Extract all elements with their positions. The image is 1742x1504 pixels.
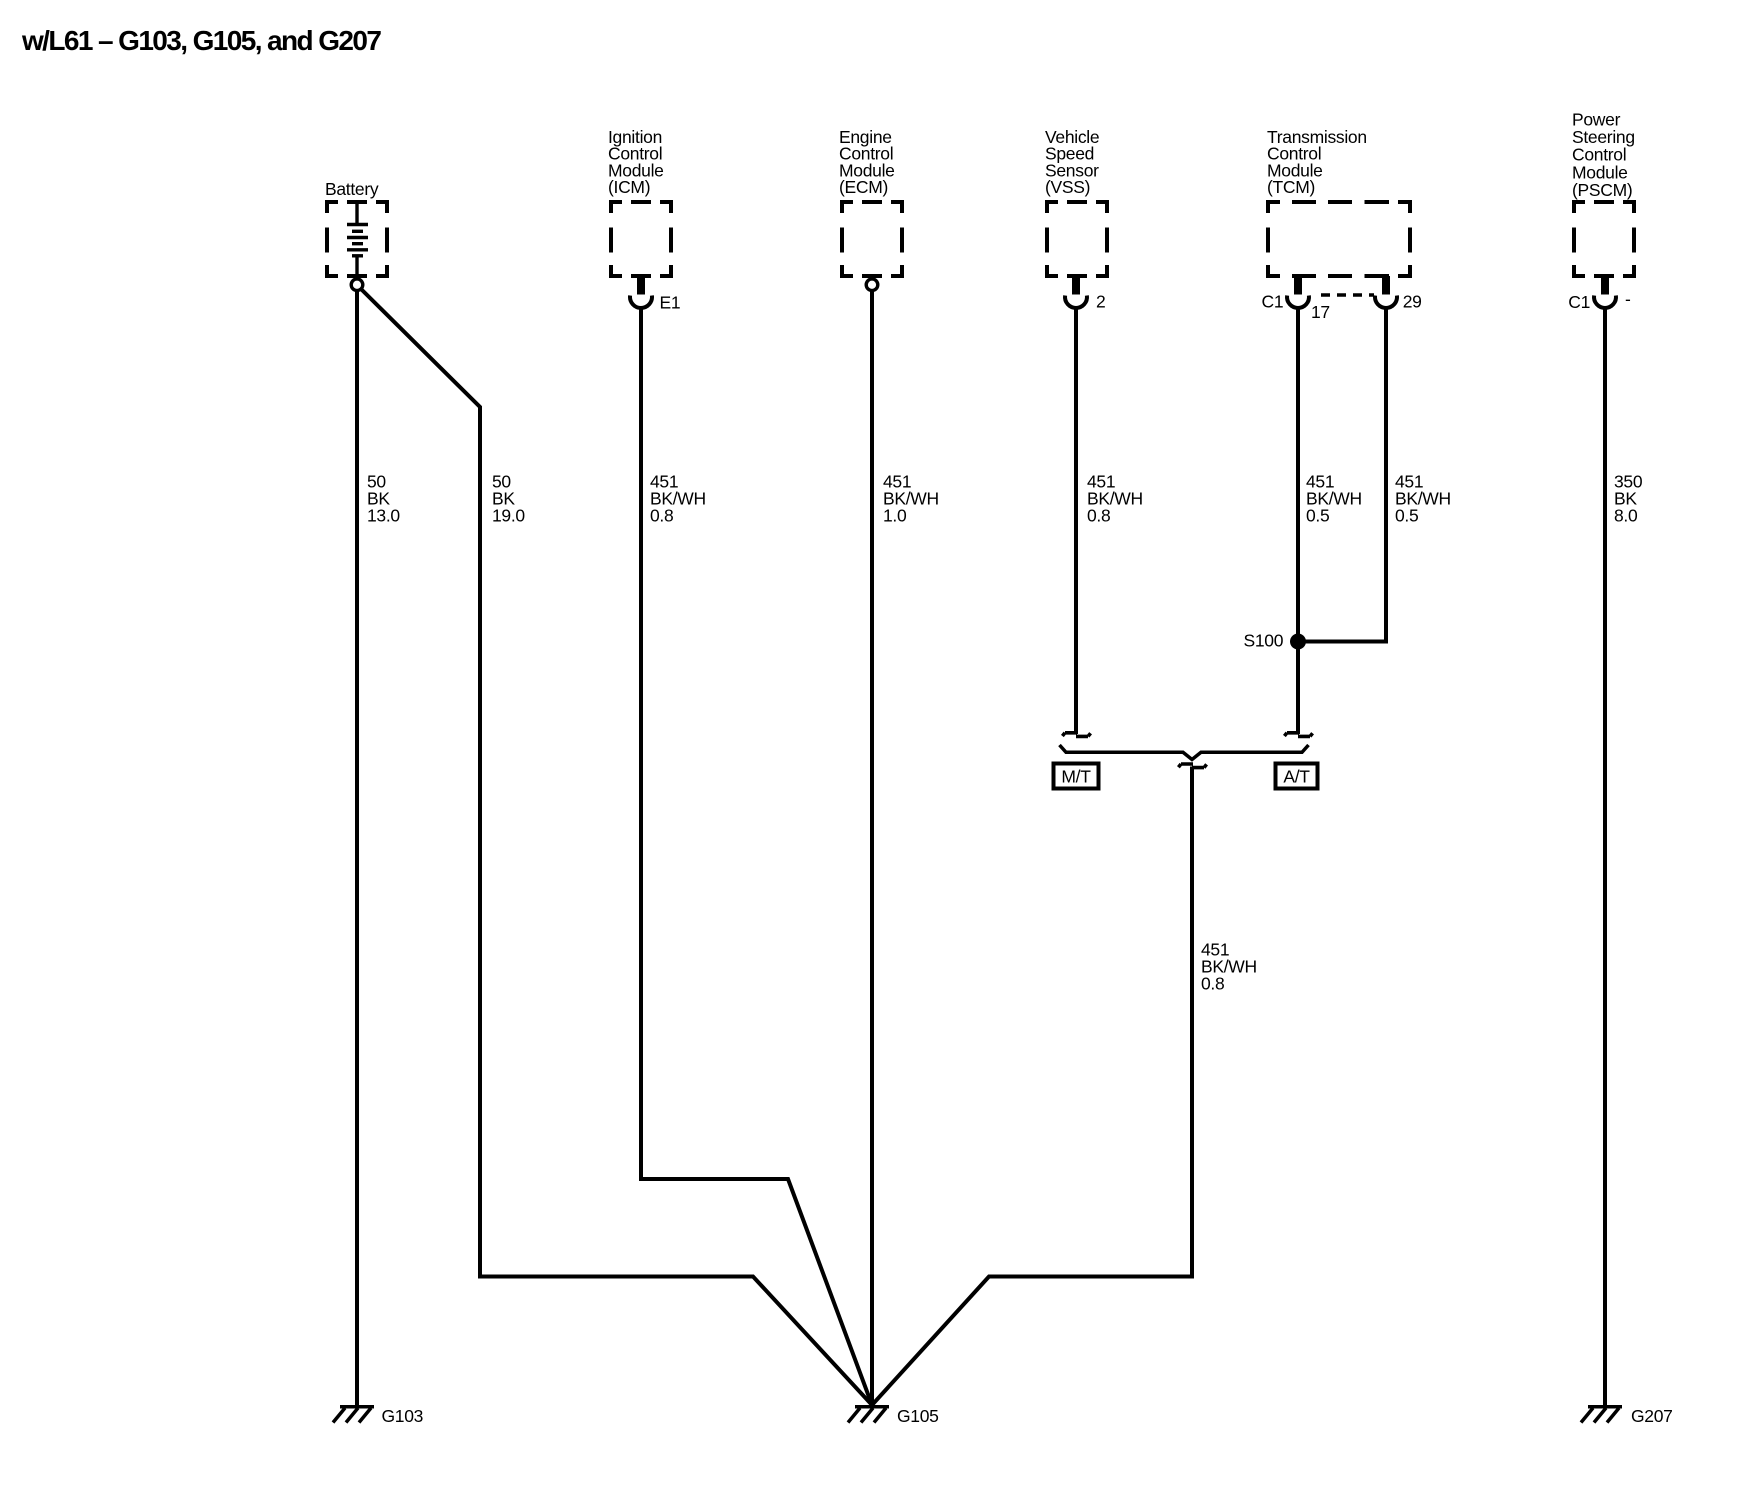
PSCM pin connector — [1594, 276, 1616, 308]
TCM pin 17 connector — [1287, 276, 1309, 308]
svg-text:451BK/WH1.0: 451BK/WH1.0 — [883, 472, 939, 526]
wire 451 BK/WH 0.5 TCM pin 17 through S100 to A/T connector end — [1296, 308, 1300, 735]
M/T option box — [1054, 764, 1099, 789]
svg-text:PowerSteeringControlModule(PSC: PowerSteeringControlModule(PSCM) — [1572, 110, 1635, 200]
M/T wire inline connector end — [1062, 733, 1090, 737]
splice S100 — [1290, 634, 1306, 650]
VSS pin 2 connector — [1065, 276, 1087, 308]
svg-text:451BK/WH0.8: 451BK/WH0.8 — [1087, 472, 1143, 526]
svg-text:350BK8.0: 350BK8.0 — [1614, 472, 1643, 526]
svg-text:50BK13.0: 50BK13.0 — [367, 472, 400, 526]
wire 451 BK/WH 1.0 ECM to G105 — [870, 290, 874, 1405]
TCM box (dashed) — [1266, 200, 1412, 278]
ICM box (dashed) — [609, 200, 673, 278]
ground G207 — [1581, 1407, 1622, 1423]
svg-text:2: 2 — [1096, 292, 1105, 312]
wire 50 BK 13.0 battery to G103 — [355, 290, 359, 1405]
svg-text:M/T: M/T — [1061, 767, 1091, 787]
TCM pin 29 connector — [1375, 276, 1397, 308]
wire 451 BK/WH 0.5 TCM pin 29 to S100 — [1303, 308, 1386, 642]
svg-text:VehicleSpeedSensor(VSS): VehicleSpeedSensor(VSS) — [1045, 127, 1099, 197]
svg-text:50BK19.0: 50BK19.0 — [492, 472, 525, 526]
wire 451 BK/WH 0.8 VSS pin 2 to M/T connector end — [1074, 308, 1078, 735]
svg-text:E1: E1 — [660, 293, 681, 313]
wire 350 BK 8.0 PSCM to G207 — [1603, 308, 1607, 1406]
svg-text:TransmissionControlModule(TCM): TransmissionControlModule(TCM) — [1267, 127, 1367, 197]
ground G105 — [848, 1407, 889, 1423]
svg-text:w/L61 – G103, G105, and G207: w/L61 – G103, G105, and G207 — [21, 25, 381, 56]
svg-text:451BK/WH0.8: 451BK/WH0.8 — [650, 472, 706, 526]
inline connector start below brace — [1178, 764, 1206, 768]
TCM C1 connector dashed link — [1321, 293, 1374, 296]
brace joining M/T and A/T wires — [1060, 745, 1309, 760]
battery cell symbol — [347, 202, 368, 280]
svg-text:A/T: A/T — [1283, 767, 1310, 787]
svg-text:EngineControlModule(ECM): EngineControlModule(ECM) — [839, 127, 895, 197]
ICM pin E1 connector — [630, 276, 652, 308]
svg-text:29: 29 — [1403, 292, 1422, 312]
svg-text:G105: G105 — [897, 1406, 939, 1426]
ECM box (dashed) — [840, 200, 904, 278]
svg-text:C1: C1 — [1262, 292, 1284, 312]
battery ring terminal — [351, 279, 363, 291]
svg-text:451BK/WH0.5: 451BK/WH0.5 — [1306, 472, 1362, 526]
wire 451 BK/WH 0.8 ICM E1 to G105 — [641, 308, 872, 1406]
VSS box (dashed) — [1045, 200, 1109, 278]
wire 50 BK 19.0 battery to G105 — [360, 288, 872, 1405]
A/T option box — [1276, 764, 1318, 789]
svg-text:-: - — [1625, 289, 1631, 309]
svg-text:451BK/WH0.5: 451BK/WH0.5 — [1395, 472, 1451, 526]
PSCM box (dashed) — [1572, 200, 1636, 278]
svg-text:17: 17 — [1311, 302, 1330, 322]
battery box (dashed) — [325, 200, 389, 278]
svg-text:S100: S100 — [1244, 631, 1284, 651]
ground G103 — [333, 1407, 374, 1423]
wire 451 BK/WH 0.8 brace output to G105 — [872, 767, 1192, 1406]
svg-text:451BK/WH0.8: 451BK/WH0.8 — [1201, 939, 1257, 993]
svg-text:G207: G207 — [1631, 1406, 1673, 1426]
A/T wire inline connector end — [1284, 733, 1312, 737]
svg-text:Battery: Battery — [325, 179, 379, 199]
ECM ring terminal — [866, 279, 878, 291]
svg-text:IgnitionControlModule(ICM): IgnitionControlModule(ICM) — [608, 127, 664, 197]
svg-text:C1: C1 — [1568, 292, 1590, 312]
svg-text:G103: G103 — [382, 1406, 424, 1426]
